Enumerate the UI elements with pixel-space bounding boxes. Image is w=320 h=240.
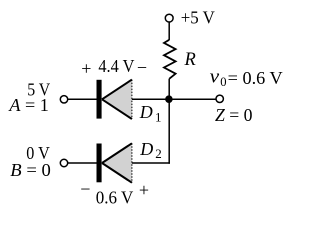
svg-text:4.4 V: 4.4 V <box>98 56 134 76</box>
svg-text:R: R <box>184 50 196 70</box>
output terminal <box>216 95 223 102</box>
wire D2 to corner <box>132 162 170 164</box>
label D2 <box>139 139 162 161</box>
svg-text:Z = 0: Z = 0 <box>215 105 253 125</box>
label + 4.4 V - (across D1) <box>81 56 147 79</box>
svg-text:D: D <box>139 139 153 159</box>
svg-text:+: + <box>139 180 149 200</box>
wire supply to resistor <box>168 22 170 40</box>
wire node to output terminal <box>169 98 216 100</box>
diode D1 <box>97 80 132 119</box>
svg-text:0: 0 <box>220 75 226 89</box>
wire corner up to node <box>168 99 170 164</box>
input terminal A <box>60 96 67 103</box>
svg-text:B = 0: B = 0 <box>10 160 51 180</box>
wire D1 to node <box>132 98 169 100</box>
label D1 <box>139 102 162 125</box>
resistor R <box>164 40 176 79</box>
svg-text:+5 V: +5 V <box>181 7 215 27</box>
svg-text:0.6 V: 0.6 V <box>96 188 134 208</box>
diode D2 <box>97 143 132 182</box>
svg-text:+: + <box>81 58 91 78</box>
input terminal B <box>60 159 67 166</box>
svg-text:2: 2 <box>155 146 162 161</box>
wire A to diode D1 <box>68 98 97 100</box>
svg-text:v: v <box>210 66 220 87</box>
svg-text:= 0.6 V: = 0.6 V <box>228 68 283 88</box>
svg-text:A = 1: A = 1 <box>8 95 49 115</box>
svg-text:−: − <box>137 58 147 78</box>
svg-text:1: 1 <box>155 110 162 125</box>
wire resistor to node <box>168 79 170 99</box>
node junction dot <box>165 95 173 103</box>
label - 0.6 V + (across D2) <box>80 179 149 207</box>
svg-text:−: − <box>80 179 90 199</box>
svg-text:D: D <box>139 102 153 122</box>
terminal +5V supply <box>165 14 173 22</box>
label v0 = 0.6 V <box>210 66 283 88</box>
wire B to diode D2 <box>68 162 97 164</box>
